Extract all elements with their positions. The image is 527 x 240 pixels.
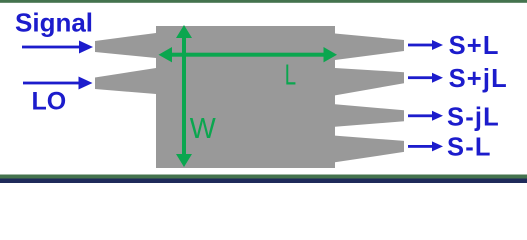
output arrow 4: [408, 141, 443, 151]
output arrow 2: [408, 73, 443, 83]
bottom green border strip: [0, 175, 527, 179]
svg-text:S-jL: S-jL: [447, 104, 500, 132]
LO input arrow: [23, 77, 93, 90]
bottom navy border strip: [0, 179, 527, 184]
dimension arrow W (vertical, double-headed): [176, 25, 192, 167]
svg-text:Signal: Signal: [15, 7, 93, 37]
output arrow 3: [408, 111, 443, 121]
svg-text:W: W: [190, 113, 217, 145]
svg-text:S+L: S+L: [449, 32, 500, 60]
MMI body (multimode section): [156, 26, 335, 168]
dimension arrow L (horizontal, double-headed): [159, 47, 338, 62]
Signal input arrow: [22, 41, 93, 54]
output taper 1 (S+L): [335, 34, 404, 61]
output taper 4 (S-L): [335, 136, 404, 163]
output arrow 1: [408, 40, 443, 50]
top green border strip: [0, 0, 527, 3]
input taper 2 (LO): [95, 68, 156, 94]
output taper 3 (S-jL): [335, 104, 404, 127]
svg-text:LO: LO: [32, 87, 67, 115]
input taper 1 (Signal): [95, 33, 156, 58]
svg-text:L: L: [285, 59, 297, 91]
output taper 2 (S+jL): [335, 68, 404, 95]
svg-text:S-L: S-L: [447, 134, 492, 162]
svg-text:S+jL: S+jL: [449, 65, 508, 93]
